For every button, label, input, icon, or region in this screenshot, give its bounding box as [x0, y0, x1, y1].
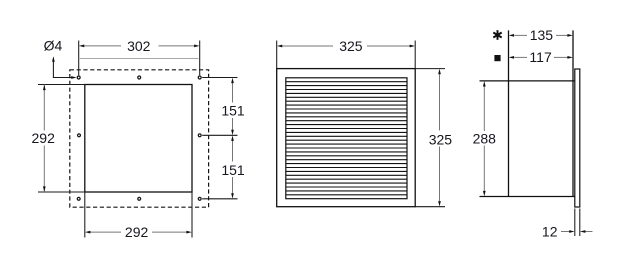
- dim 151 extension lines: [202, 77, 237, 79]
- dim 292 left: [43, 85, 45, 131]
- svg-text:151: 151: [221, 103, 245, 119]
- grille front outline: [277, 69, 416, 207]
- louvre slats: [286, 82, 407, 195]
- mounting hole H6: [77, 197, 80, 200]
- mounting hole H8: [198, 197, 201, 200]
- dim 325 top extension lines: [276, 41, 278, 69]
- dim 151 lower: [232, 141, 234, 162]
- svg-text:288: 288: [473, 130, 497, 146]
- svg-text:117: 117: [529, 49, 552, 65]
- svg-text:292: 292: [125, 224, 149, 240]
- dim 292 bottom extension lines: [84, 192, 86, 238]
- dim 302 extension lines: [78, 41, 80, 76]
- svg-text:292: 292: [32, 130, 56, 146]
- mounting hole H7: [138, 197, 141, 200]
- dim 325 top: [283, 45, 334, 47]
- mounting hole H2: [138, 76, 141, 79]
- dim 135: [515, 34, 528, 36]
- marker asterisk: [493, 30, 501, 40]
- dim 117: [515, 56, 528, 58]
- svg-text:151: 151: [221, 162, 245, 178]
- dim 151 upper: [232, 83, 234, 103]
- grille body side view right edge: [572, 30, 574, 196]
- svg-text:135: 135: [530, 27, 554, 43]
- mounting hole H5: [198, 134, 201, 137]
- flange plate side view: [575, 69, 580, 207]
- svg-text:302: 302: [127, 38, 151, 54]
- reference line (thin): [79, 58, 199, 60]
- grille body side view top edge: [480, 80, 575, 82]
- svg-text:12: 12: [542, 223, 558, 239]
- leader for Ø4: [53, 59, 72, 78]
- grille body side view bottom edge: [480, 196, 575, 198]
- dim 325 right extension lines: [415, 68, 445, 70]
- marker square: [494, 55, 500, 61]
- svg-text:Ø4: Ø4: [44, 38, 63, 54]
- mounting hole H4: [78, 134, 81, 137]
- svg-text:325: 325: [339, 38, 363, 54]
- dim 288: [483, 87, 485, 132]
- mounting hole H1: [77, 76, 80, 79]
- mounting hole H3: [198, 76, 201, 79]
- dim 292 bottom: [91, 231, 122, 233]
- dim 325 right: [439, 74, 441, 130]
- wall aperture dashed outline: [70, 70, 209, 207]
- svg-text:325: 325: [429, 132, 453, 148]
- dim 12 extension lines: [574, 209, 576, 237]
- dim 302: [85, 45, 122, 47]
- grille body side view left edge: [508, 30, 510, 196]
- dim 292 left extension lines: [38, 84, 85, 86]
- louvre panel frame: [286, 78, 407, 199]
- duct opening square: [85, 85, 192, 193]
- dim 12: [561, 231, 570, 233]
